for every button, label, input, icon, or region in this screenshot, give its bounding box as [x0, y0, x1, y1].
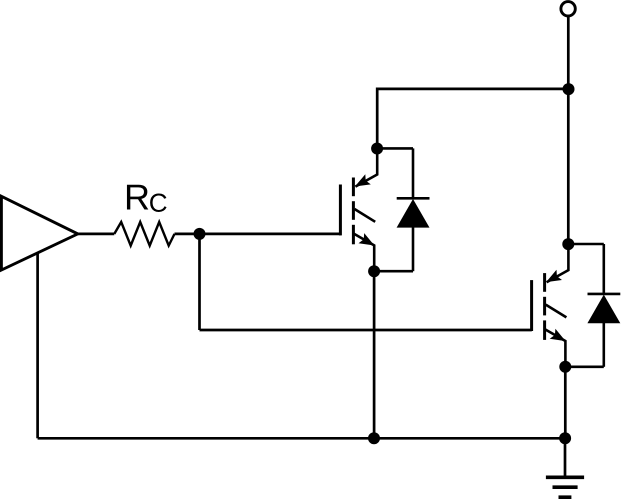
wire: gate node down: [198, 234, 201, 330]
label C subscript of RC: [150, 194, 166, 212]
wire: supply vertical: [567, 16, 570, 244]
wire: upper emitter drop: [373, 271, 376, 438]
wire: resistor to gate node: [175, 233, 341, 236]
node: gate node dot: [194, 228, 206, 240]
node: top rail dot: [563, 83, 575, 95]
ground: [546, 477, 584, 497]
wire: bottom rail: [38, 437, 566, 440]
driver buffer: [1, 196, 77, 270]
transistor Q2 (lower switch): [532, 238, 575, 373]
node: bottom rail dot left: [368, 432, 380, 444]
wire: ground stub: [564, 438, 567, 475]
wire: gate run to lower switch: [200, 329, 532, 332]
wire: upper collector riser and top rail: [377, 89, 568, 148]
node: bottom rail dot right: [559, 432, 571, 444]
diode D2 (lower switch): [565, 244, 620, 367]
wire: buffer output to resistor: [78, 233, 114, 236]
supply terminal circle: [561, 2, 575, 16]
wire: feedback vertical from buffer: [36, 253, 39, 439]
wire: lower emitter drop: [564, 367, 567, 439]
label R of RC: [127, 185, 148, 210]
diode D1 (upper switch): [374, 148, 429, 271]
transistor Q1 (upper switch): [340, 143, 383, 278]
resistor RC: [114, 222, 174, 246]
